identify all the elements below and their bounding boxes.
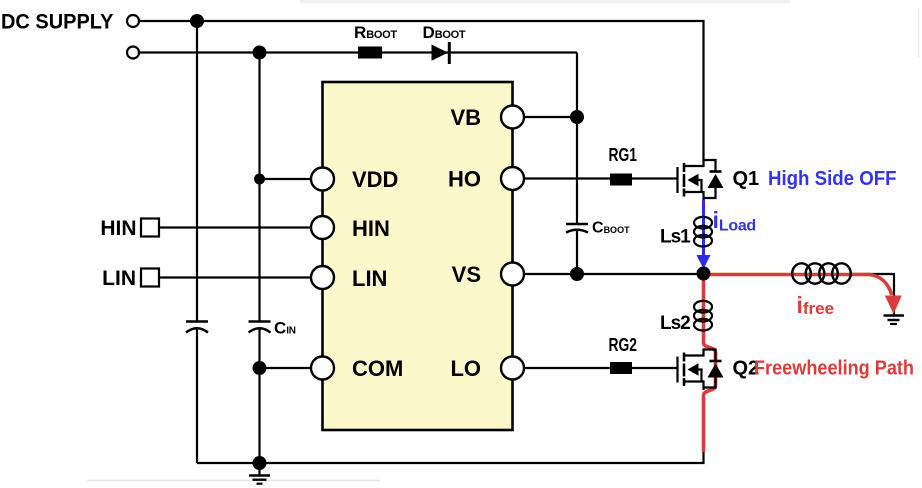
svg-text:LO: LO [450,356,481,381]
svg-text:VB: VB [450,105,481,130]
svg-text:COM: COM [352,356,403,381]
node VB [570,110,584,124]
wire bottom rail [197,450,704,463]
terminal HIN [141,219,159,237]
wire HO to gate [513,177,678,179]
svg-text:Ls1: Ls1 [660,227,691,248]
pin LIN [311,266,334,289]
svg-text:High Side OFF: High Side OFF [768,168,897,190]
svg-text:RG1: RG1 [609,145,638,165]
ground right [884,314,905,317]
terminal DC+ [127,15,139,27]
wire CBOOT branch [576,117,578,224]
wire LIN [159,276,323,278]
svg-text:RG2: RG2 [609,335,638,355]
svg-text:Ls2: Ls2 [660,313,690,334]
pin VS [501,263,524,286]
wire freewheel red path [704,275,892,296]
IC box [323,82,513,430]
terminal DC- [127,47,139,59]
node VDD [254,174,265,185]
pin HIN [311,216,334,239]
ground left [258,463,260,475]
capacitor input1 [186,320,208,322]
node top-left [190,14,204,28]
svg-text:HO: HO [448,167,481,192]
capacitor CIN [249,320,271,322]
capacitor CBOOT [566,223,588,225]
node VS-CBOOT [570,267,584,281]
node ground [253,456,267,470]
svg-text:HIN: HIN [100,217,136,240]
terminal LIN [141,269,159,287]
node supply2-cin [253,46,267,60]
wire iLoad blue [702,200,705,258]
wire left bus 2 (CIN) [258,53,260,322]
svg-text:LIN: LIN [352,266,387,291]
svg-text:HIN: HIN [352,216,390,241]
resistor RBOOT [358,47,382,59]
wire COM [260,367,323,369]
diode DBOOT [432,45,449,61]
wire VB pin [513,116,577,118]
pin COM [311,357,334,380]
pin LO [501,357,524,380]
svg-text:DC SUPPLY: DC SUPPLY [1,10,114,33]
wire top rail [133,20,705,22]
mosfet Q2 [678,350,724,391]
wire Q1 drain vertical [702,20,704,161]
inductor Ls1 [694,217,712,247]
wire VB drop [576,53,578,118]
svg-text:VDD: VDD [352,167,398,192]
wire VS [513,273,704,275]
svg-text:Q1: Q1 [733,168,760,190]
wire supply line 2 [133,51,577,53]
inductor load [792,263,851,283]
resistor RG1 [610,174,632,186]
mosfet Q1 [678,160,724,201]
pin VB [501,106,524,129]
svg-text:VS: VS [452,262,481,287]
svg-text:Freewheeling Path: Freewheeling Path [754,358,914,380]
resistor RG2 [610,362,632,374]
node VS switch [697,267,711,281]
wire LO to gate [513,367,678,369]
wire HIN [159,226,323,228]
pin VDD [311,168,334,191]
wire left bus 1 [196,21,198,322]
inductor Ls2 [694,301,712,331]
node COM [253,361,267,375]
wire load to ground [851,274,894,315]
wire VDD [260,178,323,180]
svg-text:LIN: LIN [102,267,136,290]
pin HO [501,167,524,190]
